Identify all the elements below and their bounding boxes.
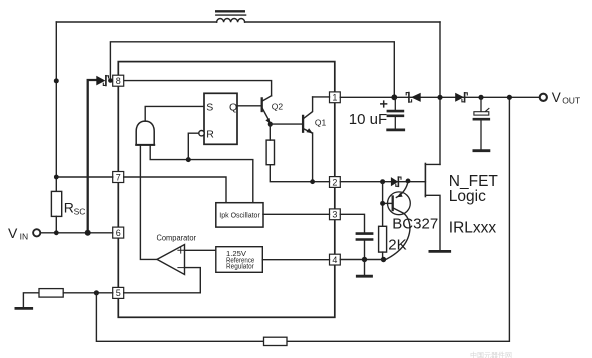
node Q1 emitter junction on pin2 rail: [310, 179, 315, 184]
svg-text:Q1: Q1: [315, 117, 327, 127]
latch R inverting bubble: [199, 131, 204, 136]
diode D2 schottky (switch node to bootstrap cap, pointing left): [406, 93, 421, 102]
svg-text:Ipk Oscillator: Ipk Oscillator: [219, 211, 260, 220]
node junction 10uF: [391, 94, 397, 100]
svg-text:8: 8: [116, 76, 121, 86]
transistor Q1: [303, 97, 313, 133]
wire pin2 gate rail: [340, 181, 425, 183]
capacitor C1 10uF: [388, 97, 403, 128]
terminal VIN circle: [33, 229, 40, 236]
pin 1 box: [330, 92, 341, 103]
terminal VOUT circle: [540, 94, 547, 101]
resistor R(Q2 emitter) box: [266, 140, 274, 165]
comparator - sign: [178, 267, 184, 269]
svg-text:1: 1: [332, 93, 337, 103]
wire VOUT rail: [340, 96, 539, 98]
svg-text:7: 7: [116, 172, 121, 182]
wire timing cap bottom to pin4 rail: [364, 241, 366, 260]
wire left vertical x=56 (RSC top to top rail): [55, 22, 57, 191]
node junction diode/emitter: [406, 179, 411, 184]
pin 3 box: [330, 209, 341, 220]
resistor RSC box: [51, 191, 61, 216]
wire switch node vertical x=440 (rail to FET drain): [439, 22, 441, 164]
node junction cap/pin4 rail: [362, 257, 367, 262]
wire top rail from VIN/RSC top to switch node: [56, 21, 440, 23]
svg-text:Regulator: Regulator: [226, 264, 254, 271]
wire comparator - input to pin5: [124, 268, 201, 293]
node dot on x=56 line at y=81: [54, 78, 59, 83]
wire ground stem to divider resistor: [23, 293, 39, 307]
wire resistor stems: [270, 124, 329, 182]
AND gate U1a: [136, 121, 154, 145]
svg-text:IN: IN: [20, 232, 29, 242]
capacitor C2 timing: [357, 234, 372, 240]
wire oscillator output to pin3: [263, 213, 330, 215]
comparator U1d triangle: [157, 245, 185, 275]
resistor R2 divider-low box: [39, 289, 63, 298]
wire Q2 emitter to Q1 base: [270, 123, 303, 125]
svg-text:V: V: [8, 225, 18, 241]
diode D3 schottky (switch node to VOUT, pointing right): [455, 93, 467, 102]
node junction R-line: [186, 157, 191, 162]
transistor Q2: [262, 96, 272, 125]
node junction pin2/base: [380, 179, 385, 184]
transistor Q3 emitter with arrow: [396, 181, 408, 198]
svg-text:BC327: BC327: [392, 215, 438, 232]
transistor Q3 collector curve: [387, 208, 410, 259]
label RSC: [64, 200, 86, 217]
label VIN: [8, 225, 28, 242]
wire reference output to pin4: [262, 259, 329, 261]
wire Q3 base vertical to 2K: [382, 182, 384, 227]
diode D1 schottky (VIN to pin8): [96, 76, 108, 86]
wire comparator + input to reference box: [185, 249, 216, 251]
ground left bar: [16, 307, 32, 310]
svg-text:R: R: [64, 200, 74, 216]
pin 6 box: [113, 227, 124, 238]
comparator + sign: [178, 248, 184, 254]
resistor R3 2K box: [379, 226, 387, 252]
svg-text:Logic: Logic: [449, 188, 486, 205]
wire feedback down and bottom rail: [96, 97, 509, 341]
wire bootstrap rail y=42: [110, 42, 394, 98]
svg-text:10 uF: 10 uF: [349, 111, 387, 128]
pin 2 box: [330, 177, 341, 188]
pin 4 box: [330, 254, 341, 265]
IC U1 inner boundary box: [118, 62, 334, 318]
oscillator U1c box: [216, 203, 263, 227]
wire 2K bottom stem: [382, 252, 384, 259]
node junction feedback/pin5: [94, 290, 99, 295]
transistor Q3 BC327 circle: [388, 192, 411, 215]
ground bar under C3: [474, 149, 489, 152]
diode D1 schottky anode thick wire from VIN: [88, 80, 97, 233]
pin 8 box: [113, 75, 124, 86]
wire pin4 rail: [340, 259, 383, 261]
label VOUT: [552, 90, 580, 105]
svg-text:5: 5: [116, 288, 121, 298]
svg-text:IRLxxx: IRLxxx: [449, 219, 497, 236]
capacitor C1 10uF plus sign: [381, 101, 387, 107]
AND gate bottom edge thick: [136, 144, 154, 146]
ground bar mid: [357, 275, 371, 278]
svg-text:2: 2: [332, 177, 337, 187]
label 1.25V Reference Regulator: [226, 251, 254, 270]
transistor Q3 BC327 base bar: [392, 197, 394, 211]
svg-text:6: 6: [116, 228, 121, 238]
ground bar under FET source: [430, 250, 450, 253]
wire R input from bubble down to rail: [188, 133, 199, 159]
capacitor C3 output cap: [474, 97, 489, 149]
wire resistor to pin5: [63, 292, 112, 294]
inductor L1 coil: [217, 19, 245, 23]
node junction feedback tap: [507, 95, 512, 100]
latch U1b box: [204, 93, 237, 144]
wire Q1 collector to pin1: [313, 96, 330, 98]
node junction at pin8 diode cathode: [108, 78, 113, 83]
svg-text:Q2: Q2: [272, 101, 284, 111]
node junction 2K/pin4 rail: [381, 257, 386, 262]
wire Q3 base lead: [383, 202, 393, 204]
wire ground stem mid: [364, 260, 366, 275]
wire pin8 collector rail y=80.6: [124, 81, 272, 96]
svg-text:OUT: OUT: [562, 95, 580, 105]
ground bar under C1: [388, 128, 404, 131]
node junction base/2K: [380, 201, 385, 206]
inductor L1 core bar thin: [216, 14, 246, 16]
svg-text:Comparator: Comparator: [157, 234, 197, 243]
wire comparator output up to AND left input: [140, 145, 157, 260]
node Q2 emitter junction: [268, 122, 273, 127]
wire RSC bottom to VIN rail: [55, 216, 57, 232]
inductor L1 core bar thick: [216, 10, 244, 12]
pin 7 box: [113, 172, 124, 183]
svg-text:中国元器件网: 中国元器件网: [470, 351, 512, 358]
wire AND right input to R-node rail: [150, 145, 253, 203]
svg-text:Q: Q: [229, 102, 237, 114]
node junction output cap: [478, 95, 483, 100]
svg-text:3: 3: [332, 210, 337, 220]
wire AND output to latch S: [145, 106, 204, 121]
node junction switch node on rail: [437, 95, 442, 100]
pin 5 box: [113, 287, 124, 298]
diode D4 schottky (base speedup, pointing right): [391, 177, 401, 186]
wire latch Q to Q2 base: [237, 105, 261, 107]
svg-text:S: S: [206, 102, 213, 114]
wire VIN rail: [40, 232, 112, 234]
node junction thick wire/VIN: [85, 230, 91, 236]
svg-text:4: 4: [332, 255, 337, 265]
resistor R1 feedback box: [264, 337, 288, 345]
node junction RSC/VIN: [54, 230, 59, 235]
node junction x56 pin7: [54, 175, 59, 180]
svg-text:2K: 2K: [388, 236, 406, 253]
transistor M1 N-FET symbol: [425, 164, 440, 250]
wire pin7 sense line: [56, 177, 226, 203]
reference regulator U1e box: [216, 247, 262, 273]
wire Q1 emitter down to pin2 rail: [312, 133, 314, 182]
wire pin3 to timing cap: [340, 214, 364, 232]
svg-text:V: V: [552, 90, 561, 105]
svg-text:R: R: [206, 128, 214, 140]
svg-text:SC: SC: [74, 206, 86, 216]
